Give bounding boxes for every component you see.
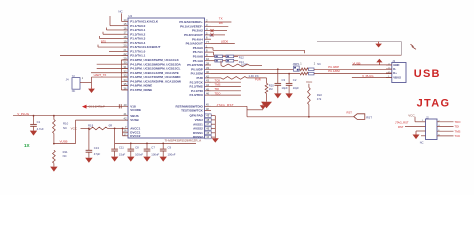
svg-text:NC: NC [317, 63, 321, 66]
svg-text:15uF: 15uF [119, 153, 126, 157]
svg-text:VUSB: VUSB [60, 139, 68, 143]
svg-text:RX: RX [219, 21, 223, 25]
svg-text:BT0: BT0 [101, 39, 106, 43]
svg-text:VCC: VCC [306, 80, 313, 84]
svg-text:J4: J4 [66, 78, 69, 82]
svg-text:1.4K 1%: 1.4K 1% [249, 74, 260, 78]
svg-text:TDO: TDO [455, 120, 462, 124]
svg-text:NC: NC [210, 35, 214, 38]
svg-text:VUSB: VUSB [130, 118, 139, 122]
svg-text:JTAG: JTAG [417, 98, 451, 110]
svg-text:VBUS: VBUS [130, 114, 138, 118]
svg-text:PJ.0/TDO: PJ.0/TDO [189, 93, 203, 97]
svg-text:V_PLUG: V_PLUG [17, 112, 30, 116]
svg-text:UART_TX: UART_TX [94, 73, 107, 77]
svg-text:RST: RST [347, 110, 353, 114]
svg-text:VCC: VCC [408, 113, 415, 117]
svg-text:TDI: TDI [455, 125, 460, 129]
svg-text:NC: NC [63, 154, 67, 158]
svg-text:NC: NC [63, 126, 67, 130]
svg-text:JTAG_RST: JTAG_RST [217, 103, 234, 107]
svg-text:C1: C1 [37, 120, 41, 124]
svg-text:100nF: 100nF [135, 153, 143, 157]
svg-text:P4.7/PM_NONE: P4.7/PM_NONE [130, 88, 152, 92]
svg-text:JMP1: JMP1 [293, 62, 300, 66]
svg-text:C3: C3 [282, 78, 286, 82]
svg-text:RST: RST [398, 125, 404, 129]
svg-text:47k: 47k [317, 97, 322, 101]
svg-text:100nF: 100nF [168, 153, 176, 157]
svg-text:NC: NC [72, 90, 76, 93]
svg-text:0R: 0R [109, 123, 113, 127]
svg-text:DVCC2: DVCC2 [130, 134, 141, 138]
svg-text:C9: C9 [168, 146, 172, 150]
svg-text:TMS: TMS [455, 129, 461, 133]
svg-text:TX: TX [219, 16, 223, 20]
svg-text:R22: R22 [317, 93, 322, 97]
svg-text:C7: C7 [151, 146, 155, 150]
svg-text:NC: NC [420, 140, 424, 144]
svg-text:LED0: LED0 [221, 39, 229, 43]
svg-text:PU.1/DM: PU.1/DM [328, 69, 340, 73]
svg-text:TEST/SBWTCK: TEST/SBWTCK [181, 109, 203, 113]
svg-text:NC: NC [118, 9, 122, 13]
svg-text:R12: R12 [239, 56, 244, 60]
svg-text:U2: U2 [128, 14, 132, 18]
svg-text:PUR: PUR [255, 77, 261, 81]
svg-text:TDO: TDO [215, 91, 222, 95]
svg-text:C11: C11 [119, 146, 124, 150]
svg-text:VCC: VCC [71, 126, 78, 130]
svg-text:RST: RST [366, 116, 372, 120]
svg-text:1X: 1X [24, 143, 31, 148]
svg-text:R19: R19 [88, 123, 94, 127]
svg-text:VBUS: VBUS [393, 76, 401, 80]
svg-text:VCORE: VCORE [130, 108, 141, 112]
svg-text:USB: USB [414, 68, 441, 80]
svg-text:C8: C8 [135, 146, 139, 150]
svg-text:C13: C13 [94, 146, 100, 150]
svg-text:VUSB: VUSB [353, 61, 361, 65]
svg-text:JTAG_RST: JTAG_RST [395, 120, 409, 124]
svg-text:TCK: TCK [455, 134, 461, 138]
svg-text:D+: D+ [393, 71, 397, 75]
svg-text:4.7uF: 4.7uF [37, 127, 44, 131]
svg-text:V_PLUG: V_PLUG [362, 74, 374, 78]
svg-text:47pF: 47pF [94, 152, 101, 156]
svg-text:C2: C2 [293, 78, 297, 82]
svg-text:DVSS2: DVSS2 [193, 135, 203, 139]
svg-text:10pF: 10pF [293, 86, 299, 90]
svg-text:100nF: 100nF [151, 153, 159, 157]
svg-text:10pF: 10pF [282, 86, 288, 90]
